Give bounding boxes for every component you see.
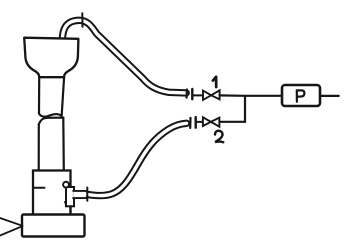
wire: valve 1 to gauge P [220,94,282,97]
leader line lower [0,226,22,235]
column break wavy line (upper) [39,113,62,116]
valve 2 bowtie [203,117,211,126]
label 2 [215,131,223,143]
body edge below fitting [69,206,71,214]
joint bar 1 [191,89,193,99]
wire: tube from column top to valve 1 (outer black) [62,20,186,93]
column lower segment [38,125,40,171]
funnel (column top cup) [24,38,78,77]
valve 1 bowtie [203,91,211,100]
wire: stem to valve 2 [196,121,203,123]
label 1 [213,77,216,87]
joint tick on stub [86,188,88,201]
leader line upper [0,218,23,226]
outlet fitting block on body [66,187,74,206]
column break wavy line (lower) [39,118,64,125]
body level tick [33,187,45,189]
wire: stem to valve 1 [192,94,203,96]
wire: valve 2 to junction [219,96,245,122]
drain arrow [64,201,67,206]
wire: tube from column top to valve 1 (white core) [62,20,186,93]
wire: tube from pump body to valve 2 (outer black) [85,123,187,195]
wire: gauge output [321,95,339,97]
tube 2 end cap [189,118,192,128]
wire: tube from pump body to valve 2 (white core) [85,123,187,195]
tick on tube apex [81,13,83,27]
tube 1 end cap [186,90,188,98]
label P [297,90,305,101]
column upper segment [38,77,40,113]
gauge P box [282,85,320,106]
pump body [33,171,71,215]
fitting ball [63,182,69,188]
base block [22,215,85,237]
joint bar 2 [194,117,196,128]
outlet stub channel [73,191,86,198]
